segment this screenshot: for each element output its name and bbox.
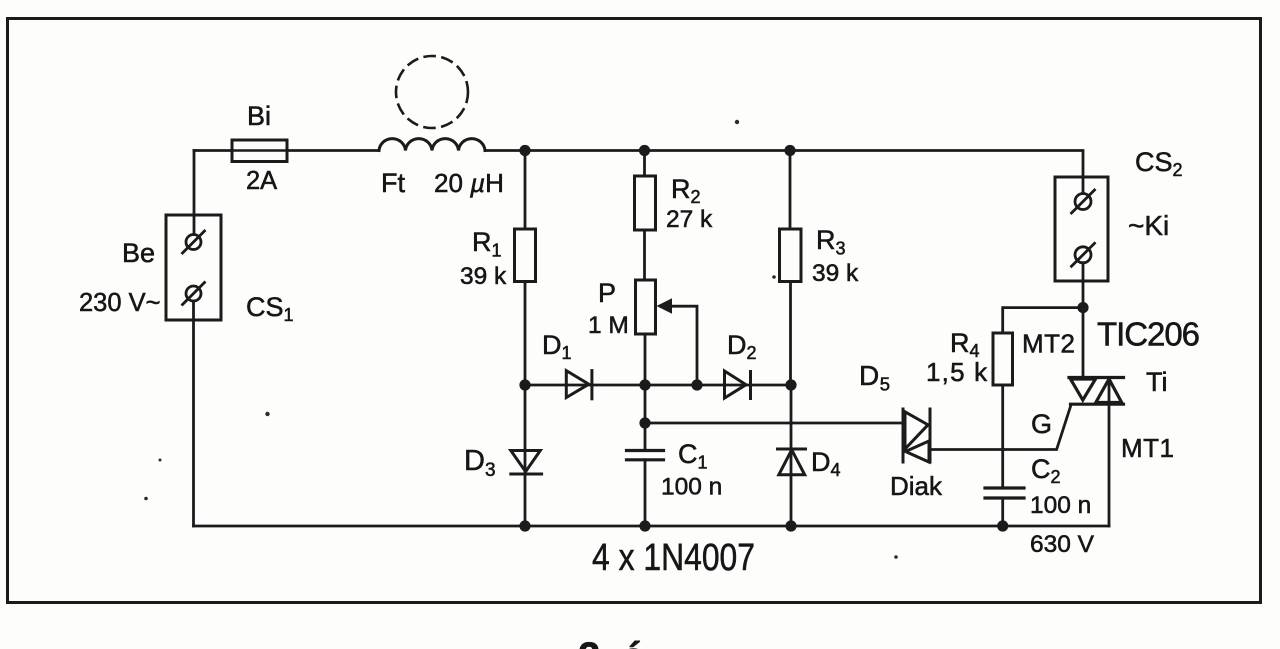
svg-text:630 V: 630 V	[1030, 531, 1095, 558]
svg-text:Diak: Diak	[890, 471, 943, 501]
resistor R1	[524, 151, 527, 230]
svg-text:39 k: 39 k	[460, 263, 507, 290]
scan speckles	[144, 120, 898, 559]
dashed toroid circle of Ft	[396, 56, 468, 128]
node top bus / R2	[639, 145, 650, 156]
CS1 terminal 1	[183, 231, 205, 253]
capacitor C2	[985, 488, 1024, 498]
svg-text:Ti: Ti	[1146, 367, 1168, 397]
wire: D1/D2 row	[525, 384, 791, 387]
node rail C1	[639, 520, 650, 531]
node C1 top	[639, 417, 650, 428]
svg-text:4 x 1N4007: 4 x 1N4007	[592, 537, 755, 579]
resistor R4	[1003, 308, 1083, 333]
svg-text:Be: Be	[122, 238, 155, 268]
fuse Bi	[232, 140, 287, 162]
wire: fuse to inductor	[287, 149, 379, 152]
wire: triac MT1 down to bottom rail	[1108, 378, 1111, 527]
CS1 terminal 2	[183, 283, 205, 305]
wire: top bus from inductor to right corner, down to CS2	[485, 151, 1083, 194]
diode D1	[566, 371, 592, 399]
resistor R2	[643, 151, 646, 177]
P wiper arrow and return wire	[657, 298, 698, 385]
potentiometer P	[636, 280, 656, 334]
connector CS1 box	[166, 215, 221, 320]
node wiper return on row	[691, 379, 702, 390]
diac D5	[903, 409, 930, 462]
wire: CS1 bottom to bottom rail	[192, 301, 195, 526]
svg-text:100 n: 100 n	[1030, 492, 1091, 519]
node top bus / R3	[784, 145, 795, 156]
connector CS2 box	[1055, 177, 1108, 281]
svg-text:G: G	[1031, 409, 1052, 439]
CS2 terminal 1	[1072, 190, 1095, 213]
inductor Ft 20uH	[379, 139, 485, 151]
svg-text:39 k: 39 k	[812, 260, 859, 287]
node D1 row left	[519, 379, 530, 390]
CS2 terminal 2	[1072, 243, 1095, 266]
resistor R3	[789, 151, 792, 230]
node pot bottom on row	[639, 379, 650, 390]
wire: left vertical from corner down to CS1 connector	[193, 151, 196, 235]
node rail C2	[997, 520, 1008, 531]
svg-text:1,5 k: 1,5 k	[926, 357, 988, 387]
node CS2 bottom	[1077, 302, 1088, 313]
diode D2	[725, 371, 751, 399]
capacitor C1	[627, 451, 664, 460]
node D2 row right	[785, 379, 796, 390]
svg-text:~Ki: ~Ki	[1128, 210, 1169, 241]
svg-text:1 M: 1 M	[588, 312, 629, 339]
svg-text:Bi: Bi	[247, 101, 271, 131]
svg-text:20 µH: 20 µH	[434, 168, 504, 198]
svg-text:TIC206: TIC206	[1097, 316, 1200, 353]
wire: bottom rail	[194, 525, 1110, 528]
diode D4	[790, 385, 793, 526]
svg-text:2. á: 2. á	[578, 635, 645, 649]
wire: CS2 bottom to triac node	[1082, 263, 1085, 378]
node top bus / R1	[519, 145, 530, 156]
wire: diac output to gate of triac	[930, 406, 1071, 450]
wire: C1 node to diac D5	[645, 422, 903, 425]
svg-text:P: P	[598, 278, 616, 308]
svg-text:MT2: MT2	[1022, 329, 1076, 359]
diode D3	[524, 385, 527, 526]
node rail D3	[519, 520, 530, 531]
triac Ti TIC206	[1069, 378, 1124, 405]
svg-text:Ft: Ft	[381, 168, 405, 198]
node rail D4	[785, 520, 796, 531]
svg-text:27 k: 27 k	[666, 206, 713, 233]
wire: pot bottom down to C1 node	[644, 334, 647, 423]
svg-text:100 n: 100 n	[661, 474, 722, 501]
wire: top-left horizontal from corner to fuse	[194, 149, 232, 152]
svg-text:MT1: MT1	[1121, 433, 1175, 463]
svg-text:230 V~: 230 V~	[79, 289, 161, 317]
svg-text:2A: 2A	[246, 167, 277, 195]
